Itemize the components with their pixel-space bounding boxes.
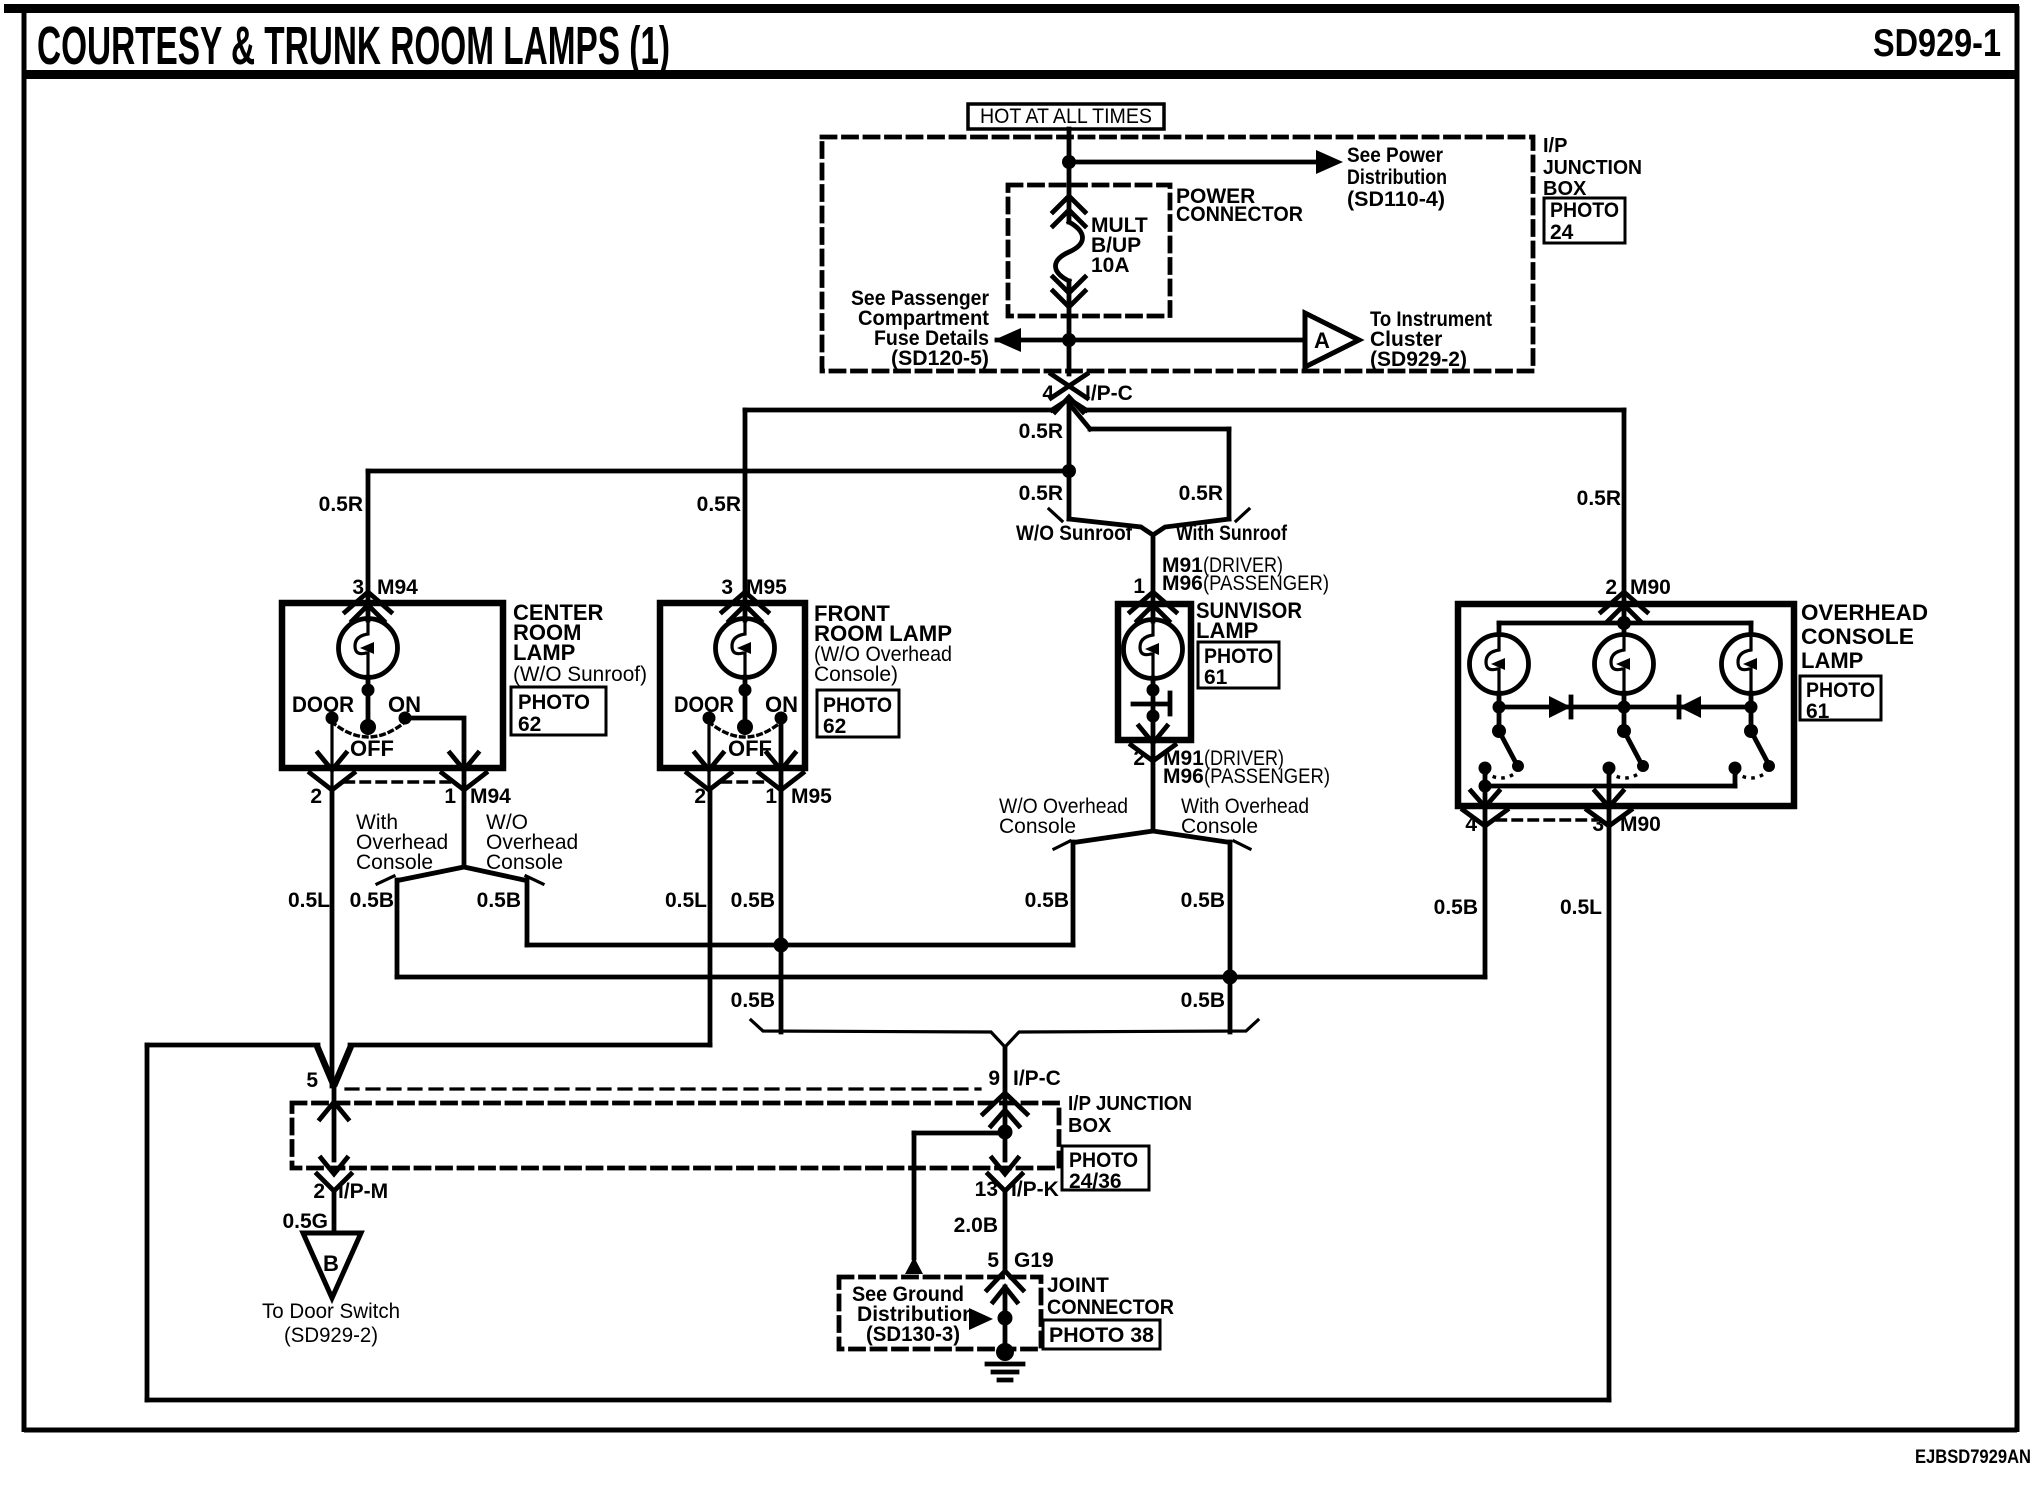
label M91(DRIVER) below sunvisor bbox=[1163, 747, 1284, 770]
label 3 M95 bbox=[721, 576, 787, 599]
connector M90 pin 4 chevrons bbox=[1463, 791, 1507, 826]
wire: with-sunroof vertical bbox=[1227, 429, 1232, 519]
svg-text:M94: M94 bbox=[470, 785, 511, 808]
wire: 2.0B vertical bbox=[1003, 1191, 1008, 1270]
wire: 0.5G down to triangle B bbox=[332, 1191, 337, 1232]
page frame: top border line bbox=[4, 4, 2019, 13]
svg-text:OFF: OFF bbox=[350, 736, 394, 761]
fuse MULT B/UP 10A: wavy element bbox=[1056, 222, 1083, 281]
label See Power Distribution (SD110-4) bbox=[1347, 144, 1447, 211]
overhead inner top bus bbox=[1499, 621, 1751, 626]
connector 9 chevrons bbox=[983, 1093, 1027, 1126]
switch lever left bbox=[1499, 731, 1517, 765]
svg-text:PHOTO: PHOTO bbox=[518, 691, 590, 714]
svg-text:(PASSENGER): (PASSENGER) bbox=[1204, 765, 1330, 788]
svg-text:M90: M90 bbox=[1630, 576, 1671, 599]
svg-text:(SD130-3): (SD130-3) bbox=[866, 1323, 960, 1346]
SUNVISOR LAMP box bbox=[1118, 604, 1191, 740]
svg-text:M90: M90 bbox=[1620, 813, 1661, 836]
wire: I/P-K internal vertical bbox=[1003, 1132, 1008, 1160]
wire: G19 to ground bbox=[1003, 1287, 1008, 1345]
wire: arrow to See Power Distribution bbox=[1069, 160, 1316, 165]
ground symbol bbox=[987, 1343, 1023, 1380]
svg-text:B: B bbox=[323, 1251, 339, 1276]
wire: diagonal to with-sunroof feed bbox=[1071, 406, 1090, 429]
svg-text:10A: 10A bbox=[1091, 254, 1130, 277]
connector M95 pin 3 chevrons bbox=[722, 592, 768, 621]
svg-text:PHOTO 38: PHOTO 38 bbox=[1049, 1324, 1154, 1347]
svg-text:0.5B: 0.5B bbox=[1181, 889, 1225, 912]
wire: diagonal from I/P-C to left feed bbox=[1052, 399, 1069, 410]
wire: loop left vertical bbox=[145, 1045, 150, 1400]
svg-text:2: 2 bbox=[313, 1180, 325, 1203]
connector M91/M96 pin 1 chevrons bbox=[1130, 592, 1176, 621]
overhead bulb left bbox=[1470, 635, 1529, 694]
fuse MULT B/UP 10A: bottom chevrons bbox=[1053, 277, 1085, 307]
svg-text:0.5G: 0.5G bbox=[282, 1210, 328, 1233]
svg-text:2.0B: 2.0B bbox=[954, 1214, 998, 1237]
center lamp bulb bbox=[339, 619, 398, 678]
svg-text:0.5B: 0.5B bbox=[350, 889, 394, 912]
contact DOOR (front) bbox=[703, 712, 716, 725]
svg-text:(SD929-2): (SD929-2) bbox=[284, 1324, 378, 1347]
connector M94 pin 2 chevrons bbox=[310, 753, 354, 790]
connector G19 chevrons bbox=[987, 1271, 1023, 1302]
PHOTO 24/36 box bbox=[1062, 1146, 1149, 1193]
wire: battery feed vertical (lower) bbox=[1067, 281, 1072, 374]
wire: M95 pin 2 0.5L down bbox=[708, 790, 713, 1045]
wire: arrow to See Passenger Compartment Fuse Details bbox=[997, 338, 1069, 343]
wire: sunvisor pin 2 down bbox=[1151, 761, 1156, 831]
switch arc left bbox=[1485, 772, 1517, 778]
front lamp bulb bbox=[716, 619, 775, 678]
svg-text:JUNCTION: JUNCTION bbox=[1543, 157, 1642, 179]
svg-text:1: 1 bbox=[1133, 575, 1145, 598]
svg-text:0.5R: 0.5R bbox=[697, 493, 741, 516]
svg-text:0.5R: 0.5R bbox=[319, 493, 363, 516]
node: front 0.5B joins w/o net bbox=[774, 938, 789, 953]
I/P junction box (bottom, dashed) bbox=[292, 1103, 1059, 1168]
svg-text:0.5B: 0.5B bbox=[477, 889, 521, 912]
wire: bulb to switch bbox=[366, 677, 371, 730]
label FRONT ROOM LAMP bbox=[814, 601, 952, 686]
svg-text:5: 5 bbox=[987, 1249, 999, 1272]
merge brace into connector 9 bbox=[751, 1020, 1258, 1047]
svg-text:PHOTO: PHOTO bbox=[1204, 645, 1273, 668]
wire: DOOR contact down (front) bbox=[707, 718, 710, 789]
wire: 0.5L horizontal (right of connector 5) bbox=[350, 1043, 710, 1048]
connector 5 merge V left leg bbox=[317, 1046, 334, 1086]
wire: right contact down bbox=[1733, 768, 1738, 786]
label 5 G19 bbox=[987, 1249, 1053, 1272]
svg-text:3: 3 bbox=[721, 576, 733, 599]
option tick (center w/o overhead) bbox=[526, 876, 543, 884]
label 2 M90 bbox=[1605, 576, 1671, 599]
sunvisor feed wire bbox=[1151, 604, 1156, 621]
label SUNVISOR LAMP bbox=[1196, 598, 1302, 643]
option tick (center with overhead) bbox=[377, 876, 394, 884]
wire: ON contact down (front) bbox=[779, 718, 784, 789]
PHOTO 62 box (center lamp) bbox=[511, 687, 606, 736]
svg-text:M96: M96 bbox=[1162, 572, 1203, 595]
overhead bulb right bbox=[1722, 635, 1781, 694]
wire: sunvisor with branch vertical bbox=[1228, 842, 1233, 1032]
label M96(PASSENGER) above sunvisor bbox=[1162, 572, 1329, 595]
node: sunvisor switch output bbox=[1147, 710, 1160, 723]
switch arc (front) bbox=[709, 722, 781, 737]
label I/P JUNCTION BOX (bottom) bbox=[1068, 1093, 1192, 1137]
svg-text:G19: G19 bbox=[1014, 1249, 1054, 1272]
wire: 0.5R vertical down to M90 bbox=[1622, 410, 1627, 604]
svg-text:I/P-M: I/P-M bbox=[338, 1180, 388, 1203]
connector M90 dashed tie bbox=[1497, 818, 1597, 821]
svg-text:24/36: 24/36 bbox=[1069, 1170, 1122, 1193]
sunvisor bulb bbox=[1124, 620, 1183, 679]
svg-text:I/P JUNCTION: I/P JUNCTION bbox=[1068, 1093, 1192, 1115]
svg-text:0.5B: 0.5B bbox=[731, 889, 775, 912]
svg-text:0.5B: 0.5B bbox=[731, 989, 775, 1012]
svg-text:CONSOLE: CONSOLE bbox=[1801, 624, 1914, 649]
label POWER CONNECTOR bbox=[1176, 185, 1303, 226]
upper dashed connector line bbox=[346, 1087, 980, 1090]
HOT AT ALL TIMES box bbox=[968, 104, 1164, 129]
label 2 I/P-M bbox=[313, 1180, 388, 1203]
svg-text:2: 2 bbox=[694, 785, 706, 808]
svg-text:M95: M95 bbox=[791, 785, 832, 808]
overhead feed wire bbox=[1622, 604, 1627, 623]
wire: ON contact to pin 1 (center) bbox=[405, 718, 464, 789]
svg-text:I/P-C: I/P-C bbox=[1013, 1067, 1061, 1090]
label 13 I/P-K bbox=[975, 1178, 1059, 1201]
wire: DOOR contact down (center) bbox=[330, 718, 333, 789]
label 4 3 M90 (bottom) bbox=[1465, 813, 1661, 836]
wire: middle contact to pin 3 bbox=[1607, 768, 1612, 825]
svg-text:I/P-C: I/P-C bbox=[1085, 382, 1133, 405]
wires: bulbs to diode bus bbox=[1499, 693, 1751, 707]
node: fuse details junction bbox=[1062, 333, 1076, 347]
wire: 0.5R horizontal to M90 bbox=[1086, 408, 1624, 413]
wire: left contact to pin 4 bbox=[1483, 768, 1488, 825]
svg-text:Console: Console bbox=[1181, 815, 1258, 838]
svg-text:62: 62 bbox=[518, 713, 541, 736]
svg-text:Console: Console bbox=[999, 815, 1076, 838]
sunvisor slide switch bar bbox=[1133, 702, 1167, 707]
node: ground branch junction bbox=[998, 1311, 1013, 1326]
svg-text:BOX: BOX bbox=[1068, 1115, 1112, 1137]
option tick (sunvisor w/o overhead) bbox=[1054, 841, 1070, 849]
svg-text:M96: M96 bbox=[1163, 765, 1204, 788]
label 2 1 M94 (bottom) bbox=[310, 785, 511, 808]
switch arc middle bbox=[1609, 772, 1641, 778]
power connector dashed box bbox=[1008, 185, 1170, 316]
option tick (with sunroof) bbox=[1236, 509, 1249, 521]
label I/P JUNCTION BOX (top) bbox=[1543, 135, 1642, 200]
svg-text:JOINT: JOINT bbox=[1047, 1274, 1109, 1297]
svg-text:With Sunroof: With Sunroof bbox=[1176, 522, 1288, 545]
wire: loop left horizontal (left of connector 5) bbox=[147, 1043, 318, 1048]
overhead bulb middle bbox=[1595, 635, 1654, 694]
contact dot left bbox=[1479, 762, 1492, 775]
svg-text:Console: Console bbox=[486, 851, 563, 874]
node: sunvisor bulb output bbox=[1147, 684, 1160, 697]
svg-text:See Power: See Power bbox=[1347, 144, 1443, 167]
node: switch pivot (front) bbox=[737, 719, 753, 735]
lever end dot right bbox=[1763, 760, 1775, 772]
label JOINT CONNECTOR bbox=[1047, 1274, 1174, 1319]
center lamp feed wire bbox=[366, 603, 371, 620]
svg-text:9: 9 bbox=[988, 1067, 1000, 1090]
wires: diode bus to switch pivots bbox=[1499, 707, 1751, 731]
diode D2 (pointing left) bbox=[1679, 696, 1701, 718]
connector M90 pin 3 chevrons bbox=[1587, 791, 1631, 826]
connector M95 pin 2 chevrons bbox=[687, 753, 731, 790]
svg-text:HOT AT ALL TIMES: HOT AT ALL TIMES bbox=[980, 105, 1152, 128]
label W/O Overhead Console (center) bbox=[486, 811, 578, 874]
switch arc right bbox=[1735, 772, 1767, 778]
wire: M94 pin 1 0.5B down bbox=[462, 790, 467, 867]
connector M94 pin 1 chevrons bbox=[442, 753, 486, 790]
node: bottom link left bbox=[1479, 780, 1492, 793]
svg-text:M94: M94 bbox=[377, 576, 418, 599]
wire: merged vertical to M91/M96 bbox=[1151, 535, 1156, 604]
connector 4 I/P-C symbol bbox=[1051, 374, 1087, 412]
svg-text:PHOTO: PHOTO bbox=[1069, 1149, 1138, 1172]
svg-text:0.5L: 0.5L bbox=[288, 889, 330, 912]
node: junction box internal bbox=[998, 1125, 1013, 1140]
svg-text:I/P-K: I/P-K bbox=[1011, 1178, 1059, 1201]
diode D1 (pointing right) bbox=[1549, 696, 1571, 718]
ground distribution triangle (up) bbox=[905, 1257, 923, 1274]
svg-text:SD929-1: SD929-1 bbox=[1873, 22, 2001, 65]
svg-text:61: 61 bbox=[1204, 666, 1228, 689]
svg-text:0.5L: 0.5L bbox=[1560, 896, 1602, 919]
label MULT B/UP 10A bbox=[1091, 214, 1148, 277]
wire: 0.5R vertical down to M95 bbox=[743, 410, 748, 604]
svg-text:61: 61 bbox=[1806, 700, 1830, 723]
connector M94 dashed tie bbox=[345, 780, 452, 783]
svg-text:Console: Console bbox=[356, 851, 433, 874]
connector M91/M96 pin 2 chevrons bbox=[1131, 726, 1175, 761]
ground distribution triangle (right) bbox=[969, 1308, 993, 1330]
svg-text:LAMP: LAMP bbox=[513, 640, 575, 665]
node: 0.5R branch junction bbox=[1062, 464, 1076, 478]
wire: with-overhead net horizontal bbox=[397, 975, 1485, 980]
switch arc (center) bbox=[332, 722, 405, 737]
PHOTO 62 box (front lamp) bbox=[817, 690, 899, 738]
svg-text:1: 1 bbox=[765, 785, 777, 808]
node: sunvisor with joins with net bbox=[1223, 970, 1238, 985]
svg-text:Console): Console) bbox=[814, 663, 898, 686]
wire: overhead pin 4 vertical bbox=[1483, 826, 1488, 977]
node: bulb output (front) bbox=[739, 684, 752, 697]
label With Overhead Console (sunvisor) bbox=[1181, 795, 1309, 838]
PHOTO 61 box (overhead) bbox=[1800, 676, 1881, 723]
page frame: bottom border bbox=[24, 1428, 2017, 1433]
label To Door Switch (SD929-2) bbox=[262, 1300, 400, 1347]
svg-text:OFF: OFF bbox=[728, 736, 772, 761]
wire: I/P-M internal vertical bbox=[332, 1086, 337, 1160]
connector M95 dashed tie bbox=[722, 780, 768, 783]
node: diode bus middle bbox=[1618, 701, 1631, 714]
svg-text:1: 1 bbox=[444, 785, 456, 808]
connector 5 arrow chevron bbox=[320, 1102, 348, 1119]
wire: sunvisor bulb to switch bbox=[1151, 678, 1156, 760]
PHOTO 61 box (sunvisor) bbox=[1198, 642, 1279, 689]
svg-text:0.5R: 0.5R bbox=[1179, 482, 1223, 505]
connector M94 pin 3 chevrons bbox=[345, 592, 391, 621]
sunvisor slide switch stem bbox=[1168, 693, 1173, 714]
node: switch pivot middle bbox=[1617, 724, 1631, 738]
svg-text:(SD120-5): (SD120-5) bbox=[891, 347, 989, 370]
svg-text:0.5B: 0.5B bbox=[1181, 989, 1225, 1012]
label W/O Overhead Console (sunvisor) bbox=[999, 795, 1128, 838]
OVERHEAD CONSOLE LAMP box bbox=[1458, 604, 1794, 806]
connector 13 I/P-K chevrons bbox=[988, 1158, 1022, 1191]
svg-text:0.5L: 0.5L bbox=[665, 889, 707, 912]
svg-text:DOOR: DOOR bbox=[674, 692, 734, 717]
wire: with-sunroof horizontal bbox=[1090, 427, 1229, 432]
front lamp feed wire bbox=[743, 603, 748, 620]
contact ON (front) bbox=[775, 712, 788, 725]
wire: sunroof option merge bbox=[1069, 519, 1229, 535]
PHOTO 24 box bbox=[1544, 198, 1625, 244]
svg-text:24: 24 bbox=[1550, 221, 1574, 244]
option tick (w/o sunroof) bbox=[1049, 509, 1062, 521]
CENTER ROOM LAMP box bbox=[282, 603, 503, 768]
svg-text:DOOR: DOOR bbox=[292, 692, 354, 717]
svg-text:To Door Switch: To Door Switch bbox=[262, 1300, 400, 1323]
wire: internal branch vertical bbox=[912, 1133, 917, 1258]
label M91(DRIVER) above sunvisor bbox=[1162, 554, 1283, 577]
node: switch pivot right bbox=[1744, 724, 1758, 738]
svg-text:2: 2 bbox=[310, 785, 322, 808]
svg-text:LAMP: LAMP bbox=[1801, 648, 1863, 673]
FRONT ROOM LAMP box bbox=[660, 603, 805, 768]
svg-text:PHOTO: PHOTO bbox=[1550, 199, 1619, 222]
svg-text:(SD110-4): (SD110-4) bbox=[1347, 188, 1445, 211]
lever end dot left bbox=[1512, 760, 1524, 772]
fuse MULT B/UP 10A: top chevrons bbox=[1053, 196, 1085, 226]
wire: M94 pin 2 0.5L down bbox=[330, 789, 335, 1086]
overhead bus drops to bulbs bbox=[1499, 623, 1751, 634]
wire: M95 pin 1 0.5B down to brace bbox=[779, 790, 784, 1032]
svg-text:3: 3 bbox=[1592, 813, 1604, 836]
svg-text:PHOTO: PHOTO bbox=[823, 694, 892, 717]
wire: w/o-overhead net horizontal bbox=[527, 943, 1073, 948]
svg-text:(W/O Sunroof): (W/O Sunroof) bbox=[513, 663, 647, 686]
wire: connector 9 drop bbox=[1003, 1047, 1008, 1132]
node: switch pivot left bbox=[1492, 724, 1506, 738]
svg-text:(PASSENGER): (PASSENGER) bbox=[1203, 572, 1329, 595]
contact dot right bbox=[1729, 762, 1742, 775]
node: overhead feed junction bbox=[1617, 616, 1631, 630]
label 4 I/P-C bbox=[1042, 382, 1133, 405]
svg-text:4: 4 bbox=[1465, 813, 1477, 836]
I/P junction box (top, dashed) bbox=[822, 137, 1533, 371]
node: bulb output bbox=[362, 684, 375, 697]
PHOTO 38 box bbox=[1043, 1320, 1160, 1349]
svg-text:4: 4 bbox=[1042, 382, 1054, 405]
wire: 0.5R horizontal to M94 bbox=[368, 469, 1069, 474]
node: power feed junction bbox=[1062, 155, 1076, 169]
wire: sunvisor w/o branch vertical bbox=[1071, 842, 1076, 945]
svg-text:I/P: I/P bbox=[1543, 135, 1567, 157]
label 3 M94 bbox=[352, 576, 418, 599]
svg-text:EJBSD7929AN: EJBSD7929AN bbox=[1915, 1447, 2031, 1468]
contact ON (center) bbox=[399, 712, 412, 725]
svg-text:0.5R: 0.5R bbox=[1019, 482, 1063, 505]
wire: 0.5R horizontal to M95 bbox=[745, 408, 1052, 413]
option tick (sunvisor with overhead) bbox=[1234, 841, 1250, 849]
connector 2 I/P-M chevrons bbox=[317, 1158, 351, 1191]
wire: overhead pin 3 0.5L long vertical bbox=[1607, 826, 1612, 1400]
connector M90 pin 2 chevrons bbox=[1601, 592, 1647, 621]
svg-text:LAMP: LAMP bbox=[1196, 618, 1258, 643]
page frame: left border bbox=[22, 6, 27, 1432]
wire: bulb to switch (front) bbox=[743, 677, 748, 730]
contact DOOR (center) bbox=[326, 712, 339, 725]
wire: battery feed vertical (upper) bbox=[1067, 129, 1072, 222]
label See Passenger Compartment Fuse Details (SD120-5) bbox=[851, 287, 989, 370]
svg-text:5: 5 bbox=[306, 1069, 318, 1092]
JOINT CONNECTOR dashed box bbox=[839, 1277, 1041, 1349]
wire: sunvisor option split bbox=[1077, 831, 1227, 842]
switch lever middle bbox=[1624, 731, 1642, 765]
wire: line to instrument cluster triangle bbox=[1069, 338, 1303, 343]
label CENTER ROOM LAMP bbox=[513, 600, 647, 686]
reference triangle B bbox=[303, 1233, 361, 1298]
node: switch pivot bbox=[360, 719, 376, 735]
svg-text:0.5R: 0.5R bbox=[1577, 487, 1621, 510]
page frame: right border bbox=[2015, 6, 2020, 1432]
wire: internal branch horizontal bbox=[914, 1131, 1005, 1136]
svg-text:Distribution: Distribution bbox=[1347, 166, 1447, 189]
svg-text:A: A bbox=[1314, 328, 1330, 353]
label To Instrument Cluster (SD929-2) bbox=[1370, 308, 1492, 371]
label With Overhead Console (center) bbox=[356, 811, 448, 874]
svg-text:CONNECTOR: CONNECTOR bbox=[1176, 203, 1303, 226]
svg-text:OVERHEAD: OVERHEAD bbox=[1801, 600, 1928, 625]
node: diode bus left bbox=[1493, 701, 1506, 714]
wire: M94 option split bbox=[400, 867, 524, 880]
svg-text:13: 13 bbox=[975, 1178, 998, 1201]
switch lever right bbox=[1751, 731, 1769, 765]
wire: with-overhead branch vertical bbox=[395, 880, 400, 977]
overhead diode bus bbox=[1499, 705, 1751, 710]
svg-text:(SD929-2): (SD929-2) bbox=[1370, 348, 1467, 371]
contact dot middle bbox=[1603, 762, 1616, 775]
wire: diagonal from I/P-C to right feed bbox=[1069, 399, 1086, 410]
svg-text:W/O Sunroof: W/O Sunroof bbox=[1016, 522, 1133, 545]
svg-text:62: 62 bbox=[823, 715, 846, 738]
label OVERHEAD CONSOLE LAMP bbox=[1801, 600, 1928, 673]
label 2 1 M95 (bottom) bbox=[694, 785, 832, 808]
svg-text:2: 2 bbox=[1133, 747, 1145, 770]
wire: 0.5R vertical down to M94 bbox=[366, 471, 371, 604]
svg-text:2: 2 bbox=[1605, 576, 1617, 599]
wire: w/o-overhead branch vertical bbox=[525, 880, 530, 945]
label See Ground Distribution (SD130-3) bbox=[852, 1283, 975, 1346]
svg-text:0.5B: 0.5B bbox=[1434, 896, 1478, 919]
connector M95 pin 1 chevrons bbox=[759, 753, 803, 790]
reference triangle A bbox=[1305, 313, 1359, 367]
svg-text:0.5R: 0.5R bbox=[1019, 420, 1063, 443]
page frame: title bar bottom line bbox=[22, 70, 2019, 79]
overhead inner bottom link bbox=[1485, 784, 1735, 789]
wire: loop bottom horizontal bbox=[147, 1398, 1609, 1403]
svg-text:0.5B: 0.5B bbox=[1025, 889, 1069, 912]
svg-text:PHOTO: PHOTO bbox=[1806, 679, 1875, 702]
